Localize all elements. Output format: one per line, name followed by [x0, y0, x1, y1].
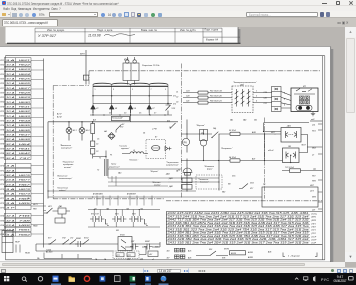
- labels bottom nets: [95, 257, 154, 260]
- svg-text:"Указатель: "Указатель: [198, 179, 208, 181]
- svg-text:приборами: приборами: [63, 164, 74, 166]
- transformer T1 control: [105, 159, 108, 176]
- svg-text:У 37Р 017: У 37Р 017: [38, 32, 57, 37]
- switch SA2: [212, 131, 230, 137]
- svg-text:V1: V1: [96, 108, 98, 110]
- svg-text:фары": фары": [207, 167, 213, 170]
- taskbar: [0, 273, 356, 285]
- svg-text:ХР11: ХР11: [0, 170, 5, 172]
- wire riser x187: [186, 119, 188, 190]
- svg-text:"Отопит.": "Отопит.": [129, 159, 138, 161]
- svg-text:С3: С3: [176, 101, 178, 103]
- net tags along right frame: [312, 124, 317, 211]
- svg-text:С21: С21: [186, 100, 189, 102]
- svg-text:Зв: Зв: [178, 169, 180, 171]
- svg-text:3 А: 3 А: [6, 164, 16, 167]
- svg-text:10 А: 10 А: [6, 105, 15, 108]
- diode V1: [91, 105, 95, 113]
- svg-text:вентилятора": вентилятора": [59, 178, 72, 180]
- fuel gauge RU: [200, 129, 208, 146]
- switch a RM: [170, 123, 176, 129]
- svg-text:Подп. и дата: Подп. и дата: [97, 27, 113, 31]
- svg-text:ДТ2: ДТ2: [127, 254, 131, 256]
- svg-text:С2: С2: [176, 96, 178, 98]
- svg-text:11.03.08: 11.03.08: [88, 33, 101, 37]
- svg-text:звуковые": звуковые": [120, 148, 130, 150]
- svg-text:10 А: 10 А: [6, 100, 15, 103]
- switch KU1: [116, 124, 122, 132]
- svg-text:F4 10 А: F4 10 А: [229, 155, 236, 158]
- svg-text:Формат А4: Формат А4: [206, 38, 219, 41]
- inductor L2: [130, 151, 144, 153]
- label front side note: [283, 252, 317, 256]
- contact KT1 KT2: [90, 216, 98, 222]
- svg-text:4: 4: [284, 103, 285, 106]
- lamp EL2: [79, 121, 85, 140]
- svg-text:10 А: 10 А: [6, 128, 15, 131]
- wire motor top loop: [264, 122, 310, 131]
- contactor KM1: [123, 57, 139, 85]
- pantograph unit KP: [291, 88, 318, 112]
- svg-text:Изм. № докум.: Изм. № докум.: [47, 27, 65, 31]
- svg-text:32 А: 32 А: [6, 214, 15, 217]
- wiring table row rules: [166, 214, 310, 240]
- svg-text:23 А: 23 А: [4, 178, 15, 181]
- svg-text:КМ41: КМ41: [76, 237, 81, 240]
- buzzer element: [152, 145, 160, 150]
- svg-text:НБ25: НБ25: [19, 78, 32, 80]
- switch SB5: [239, 183, 248, 188]
- menu bar: [0, 6, 356, 11]
- svg-text:5: 5: [132, 89, 133, 91]
- svg-text:А717: А717: [56, 112, 63, 115]
- relay KN7M: [230, 250, 246, 254]
- svg-text:НБ28: НБ28: [19, 92, 32, 94]
- meter PV1: [182, 138, 189, 145]
- svg-text:НБ8: НБ8: [33, 208, 36, 210]
- svg-text:НВ41: НВ41: [33, 224, 38, 227]
- svg-text:х23: х23: [126, 258, 130, 260]
- wire bus extension: [168, 178, 219, 182]
- svg-text:НБ27: НБ27: [19, 87, 32, 89]
- svg-text:"Электропереключатель": "Электропереключатель": [233, 82, 257, 84]
- wire bottom connections: [125, 242, 160, 247]
- label control circuits: [108, 163, 120, 168]
- svg-text:ХР31: ХР31: [0, 111, 5, 113]
- svg-text:НБ34: НБ34: [19, 119, 32, 122]
- wire vertical feeders to diodes: [93, 90, 168, 104]
- svg-text:32 А: 32 А: [6, 152, 15, 155]
- labels A25M A26M: [222, 251, 253, 259]
- svg-text:10 А: 10 А: [6, 110, 15, 113]
- svg-text:7: 7: [151, 89, 152, 91]
- svg-text:НБ23: НБ23: [19, 69, 32, 71]
- svg-text:НБ37: НБ37: [19, 134, 32, 136]
- wire upper frame taps: [310, 120, 322, 122]
- buzzer module dashed box: [146, 139, 166, 158]
- svg-text:НБ24: НБ24: [19, 72, 32, 75]
- svg-text:ХР21: ХР21: [0, 59, 5, 61]
- wire riser x219 double: [218, 134, 220, 191]
- connector stack Sh1: [182, 178, 192, 189]
- svg-text:А712: А712: [56, 115, 63, 118]
- sheet 1 (upper page bottom edge): [6, 27, 241, 44]
- svg-text:(ССР: (ССР: [312, 236, 317, 238]
- svg-text:Х3: Х3: [123, 112, 126, 114]
- svg-text:Т2: Т2: [97, 169, 99, 171]
- svg-text:КЛ6: КЛ6: [222, 257, 225, 259]
- diode V11: [165, 146, 171, 150]
- svg-text:3 А: 3 А: [6, 188, 16, 191]
- svg-text:АТ1/АТ3/АТ5: АТ1/АТ3/АТ5: [92, 192, 103, 195]
- svg-text:НВ: НВ: [19, 215, 32, 217]
- switch NR1: [44, 208, 53, 213]
- svg-text:мПа 4: мПа 4: [268, 149, 273, 152]
- svg-text:"Отопление: "Отопление: [57, 187, 68, 189]
- connector XP10-XP19 terminal strip: [4, 163, 31, 209]
- svg-text:3: 3: [113, 89, 114, 91]
- wire transposition to KP: [281, 91, 291, 108]
- svg-text:3 А: 3 А: [6, 201, 16, 204]
- svg-text:"Включение: "Включение: [60, 145, 72, 147]
- svg-text:КВ2: КВ2: [222, 191, 225, 193]
- terminal grid A26: [175, 254, 180, 258]
- svg-text:НО1: НО1: [312, 130, 316, 132]
- wiring table right labels: [311, 213, 317, 244]
- wire motor loop: [291, 134, 308, 162]
- status bar: [0, 267, 356, 273]
- labels middle scatter 2: [97, 126, 169, 175]
- svg-text:10 А: 10 А: [6, 119, 15, 122]
- resistor RT2: [290, 168, 301, 172]
- connector XP42-XP48 terminal strip: [4, 213, 31, 236]
- wire control bus to DA: [108, 176, 168, 186]
- svg-text:1 - Лицевая: 1 - Лицевая: [288, 255, 301, 257]
- svg-text:НБ38: НБ38: [19, 139, 32, 141]
- drawing frame of sheet 2: [5, 55, 324, 259]
- svg-text:1А): 1А): [213, 127, 216, 130]
- wire riser left control: [47, 121, 49, 198]
- svg-text:Инв. № дубл.: Инв. № дубл.: [180, 27, 196, 31]
- wire long run y168: [108, 168, 181, 170]
- toolbar: [0, 11, 356, 18]
- svg-text:F32 15 А С19: F32 15 А С19: [210, 89, 223, 92]
- ground hook 2: [144, 219, 147, 226]
- svg-text:НВ81: НВ81: [19, 229, 32, 231]
- svg-text:10 А: 10 А: [6, 63, 15, 66]
- wire tags crossing boundary: [97, 195, 152, 205]
- diode V3: [110, 105, 114, 113]
- svg-text:РУС: РУС: [321, 278, 329, 282]
- svg-text:ХР2А: ХР2А: [0, 100, 6, 103]
- svg-text:НВ76: НВ76: [19, 175, 32, 177]
- svg-text:КМ1: КМ1: [124, 59, 129, 61]
- svg-text:освещения": освещения": [61, 147, 72, 149]
- svg-text:Р1: Р1: [110, 154, 112, 156]
- svg-text:10 А: 10 А: [6, 77, 15, 80]
- tab bar: [0, 18, 356, 27]
- svg-text:КН7М: КН7М: [224, 248, 229, 250]
- vertical scrollbar: [345, 27, 356, 263]
- signature squiggle: [104, 33, 135, 35]
- svg-text:23 А: 23 А: [4, 68, 15, 71]
- svg-text:ДА1: ДА1: [58, 205, 63, 208]
- svg-text:мб1: мб1: [312, 124, 315, 126]
- wire phase C20: [183, 96, 272, 98]
- svg-text:НВ79: НВ79: [19, 193, 32, 195]
- wire field feed: [181, 159, 283, 161]
- label panel devices: [62, 161, 75, 168]
- title bar: [0, 0, 356, 6]
- svg-text:2Г2: 2Г2: [172, 103, 176, 105]
- labels secondary nets: [172, 95, 176, 105]
- svg-text:ДТ1: ДТ1: [116, 254, 120, 256]
- wire secondary bus: [93, 95, 172, 103]
- bottom left cluster extra: [2, 236, 20, 252]
- svg-text:НБ21: НБ21: [19, 59, 32, 61]
- fuse F33: [198, 96, 208, 99]
- misc net labels sprinkle: [92, 90, 285, 193]
- svg-text:АТ2/АТ4/БУ: АТ2/АТ4/БУ: [126, 192, 137, 195]
- svg-text:НУ2: НУ2: [312, 175, 315, 177]
- svg-text:С5: С5: [97, 138, 99, 140]
- contact KM47: [144, 243, 152, 249]
- fuse F32: [198, 91, 208, 94]
- transformer taps with numbers: [93, 84, 168, 90]
- svg-text:ДА3: ДА3: [165, 172, 169, 175]
- stamp table of sheet 1: [35, 28, 240, 43]
- svg-text:10 А: 10 А: [6, 82, 15, 85]
- relay coil LM: [55, 218, 65, 223]
- switch KU7: [48, 239, 56, 244]
- svg-text:панели": панели": [64, 166, 72, 168]
- junction box right: [262, 187, 318, 207]
- wire top feed y133: [181, 129, 212, 134]
- svg-text:А26М: А26М: [247, 256, 253, 259]
- svg-text:А21: А21: [92, 118, 96, 121]
- svg-text:F34 15 А С21: F34 15 А С21: [210, 99, 222, 102]
- svg-text:х2: х2: [151, 258, 154, 260]
- svg-text:НБ36: НБ36: [19, 129, 32, 131]
- svg-text:НВ77: НВ77: [19, 179, 32, 181]
- sheet 2 (main schematic page): [0, 46, 333, 262]
- wire long run y196: [48, 196, 230, 198]
- svg-text:(ЛУ1: (ЛУ1: [311, 223, 316, 225]
- svg-text:05.06.2017: 05.06.2017: [334, 279, 347, 283]
- svg-text:КУ2: КУ2: [120, 126, 123, 128]
- resistor R1: [91, 121, 95, 140]
- svg-text:НВ82: НВ82: [19, 234, 32, 236]
- terminal block X3: [272, 86, 282, 111]
- label lighting: [60, 145, 72, 150]
- svg-text:23 А: 23 А: [4, 228, 15, 231]
- svg-text:Х1: Х1: [108, 112, 111, 114]
- svg-text:3 А: 3 А: [6, 192, 16, 195]
- thyristor V12: [166, 105, 171, 114]
- wiring table rows: [166, 212, 310, 244]
- horizontal scrollbar: [0, 262, 345, 267]
- svg-text:КУ1: КУ1: [167, 120, 170, 122]
- diode V7: [147, 105, 151, 113]
- lamp EL1: [66, 121, 72, 140]
- svg-text:PV: PV: [184, 141, 188, 144]
- svg-text:НБ32: НБ32: [19, 111, 32, 113]
- switch UL2: [63, 239, 69, 244]
- labels NB nets: [27, 198, 38, 228]
- wire phase C19: [183, 91, 272, 93]
- svg-text:Подп. и дата: Подп. и дата: [205, 29, 219, 31]
- junction dots sprinkle: [92, 114, 291, 163]
- svg-text:749: 749: [126, 207, 129, 210]
- svg-text:х25: х25: [139, 258, 143, 260]
- svg-text:32 А: 32 А: [6, 147, 15, 150]
- svg-text:НБ73: НБ73: [33, 204, 37, 206]
- svg-text:НБ31: НБ31: [19, 106, 32, 108]
- svg-text:А25М: А25М: [247, 251, 253, 254]
- wire contact row bottom bus: [88, 222, 160, 227]
- svg-text:НБ41: НБ41: [19, 147, 32, 150]
- svg-text:4: 4: [284, 91, 285, 94]
- svg-text:А25: А25: [187, 249, 191, 252]
- svg-text:10 А: 10 А: [6, 114, 15, 117]
- svg-text:ЕL1: ЕL1: [73, 130, 77, 132]
- label paragraph left2: [57, 187, 68, 192]
- svg-text:С19: С19: [264, 92, 267, 94]
- svg-text:НБ29: НБ29: [19, 97, 32, 99]
- svg-text:2А3: 2А3: [117, 171, 121, 174]
- svg-text:"Мигалка: "Мигалка: [152, 182, 160, 184]
- svg-text:23 А: 23 А: [4, 224, 15, 227]
- svg-text:747: 747: [94, 207, 97, 210]
- labels x23 x25: [126, 246, 159, 260]
- wire bottom control run: [36, 244, 160, 255]
- changeover switch DA2: [232, 86, 253, 113]
- svg-text:F3 10 А: F3 10 А: [229, 129, 236, 132]
- wire battery feed: [240, 133, 281, 136]
- wire ground run bottom: [44, 252, 92, 258]
- svg-text:"Жерело": "Жерело": [150, 171, 159, 173]
- field winding OV1: [283, 148, 300, 163]
- svg-text:Т1: Т1: [99, 157, 101, 159]
- svg-text:3 А: 3 А: [6, 233, 16, 236]
- svg-text:А36: А36: [267, 250, 271, 253]
- svg-text:32 А: 32 А: [6, 142, 15, 145]
- wire phase C21: [183, 101, 272, 103]
- label blinker: [152, 182, 161, 187]
- svg-text:(СХР: (СХР: [312, 242, 317, 244]
- svg-text:А1-Б23: А1-Б23: [45, 250, 53, 253]
- wire right column risers: [264, 134, 266, 161]
- svg-text:(СОР: (СОР: [312, 239, 317, 241]
- transformer TV1 primary winding: [93, 83, 168, 85]
- terminal XT1 open box: [2, 230, 13, 252]
- motor DV1: [281, 127, 301, 142]
- svg-text:450Ф: 450Ф: [231, 252, 236, 255]
- svg-text:10 А: 10 А: [6, 72, 15, 75]
- svg-text:1: 1: [256, 90, 257, 92]
- svg-text:А26: А26: [187, 256, 191, 259]
- label A717 A712: [56, 112, 63, 118]
- label control paragraph left: [57, 175, 72, 180]
- svg-text:ХР44: ХР44: [0, 223, 5, 226]
- svg-text:КП: КП: [303, 85, 306, 87]
- svg-text:32 А: 32 А: [6, 156, 15, 159]
- fuse F4: [230, 158, 240, 161]
- bell Zv: [183, 168, 192, 175]
- svg-text:10 А: 10 А: [6, 133, 15, 136]
- svg-text:НБ30: НБ30: [19, 101, 32, 103]
- wire NB feeders: [31, 206, 46, 211]
- svg-text:10 А: 10 А: [6, 96, 15, 99]
- diode V5: [128, 105, 132, 113]
- svg-text:7Б3: 7Б3: [140, 208, 143, 210]
- svg-text:КУ4: КУ4: [132, 212, 135, 215]
- svg-text:"Сигналы: "Сигналы: [119, 145, 128, 147]
- svg-text:2А31 31Б 3Б1 2на 7на 2а4 2Б4 3: 2А31 31Б 3Б1 2на 7на 2а4 2Б4 31Б 315 2а4…: [166, 241, 310, 244]
- svg-text:Х1В: Х1В: [249, 182, 254, 184]
- svg-text:(Сеть: (Сеть: [312, 213, 318, 215]
- contact KM41: [75, 241, 83, 247]
- svg-text:выпрямления": выпрямления": [166, 164, 179, 166]
- svg-text:"Жерело": "Жерело": [196, 125, 205, 127]
- wire junction box taps: [230, 192, 322, 202]
- svg-text:4: 4: [284, 97, 285, 100]
- contact KU4: [129, 216, 137, 222]
- svg-text:32 А: 32 А: [6, 174, 15, 177]
- svg-text:ДВ1: ДВ1: [286, 125, 291, 127]
- junction dots rectifier bus: [92, 114, 131, 115]
- svg-text:F33 15 А С20: F33 15 А С20: [210, 94, 223, 97]
- svg-text:1: 1: [95, 89, 96, 91]
- svg-text:управления": управления": [108, 166, 120, 168]
- svg-text:"Включение: "Включение: [57, 175, 67, 177]
- label yellow headlight: [204, 166, 214, 171]
- relay coil DA1: [58, 208, 66, 214]
- svg-text:а РМ: а РМ: [152, 128, 157, 130]
- svg-text:(МУ1: (МУ1: [312, 216, 316, 218]
- switch mid KU12: [70, 239, 89, 244]
- svg-text:2А4: 2А4: [242, 118, 246, 121]
- relay module dashed DT1 DT2: [113, 251, 139, 259]
- svg-text:КТ1, КТ2: КТ1, КТ2: [91, 213, 100, 215]
- svg-text:С20: С20: [264, 97, 267, 99]
- svg-text:32 А: 32 А: [6, 169, 15, 172]
- wire rectifier output bus: [90, 109, 172, 122]
- svg-text:НБ22: НБ22: [19, 64, 32, 66]
- svg-text:ХР34: ХР34: [0, 124, 5, 127]
- svg-text:НБ35: НБ35: [19, 125, 32, 127]
- svg-text:С21: С21: [264, 103, 267, 105]
- svg-text:Разрядник 1С-10к: Разрядник 1С-10к: [142, 64, 160, 67]
- junction dots on secondary bus: [92, 95, 168, 104]
- wire stubs terminal strip to bus: [31, 60, 44, 234]
- svg-text:"Управление: "Управление: [62, 161, 75, 163]
- svg-text:Х5: Х5: [138, 112, 141, 114]
- svg-text:НБ1Р: НБ1Р: [15, 241, 20, 243]
- fuse F3: [230, 132, 240, 135]
- junction dots long runs: [47, 181, 219, 197]
- svg-text:2Б1: 2Б1: [253, 119, 257, 121]
- contact SKG: [130, 243, 138, 249]
- svg-text:С1: С1: [176, 91, 178, 93]
- wire horn branch: [93, 150, 106, 158]
- svg-text:КИП: КИП: [80, 53, 85, 55]
- contactor KM2: [112, 116, 130, 120]
- horn HA1: [108, 132, 115, 139]
- wire contact row top bus: [88, 209, 160, 216]
- ground pantograph: [311, 111, 315, 115]
- terminal grid A25: [175, 248, 180, 252]
